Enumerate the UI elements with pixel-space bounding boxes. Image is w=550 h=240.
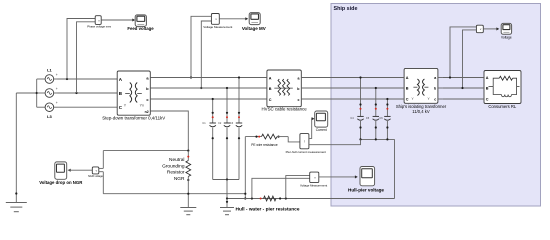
- svg-text:Voltage Measurement: Voltage Measurement: [203, 25, 232, 29]
- wire: phase b to MV measurement -: [201, 21, 211, 88]
- junction ship rail C5: [375, 138, 377, 140]
- svg-text:C1: C1: [202, 122, 206, 125]
- wire: NGR measurement - to loop: [99, 171, 104, 173]
- svg-text:B: B: [486, 87, 489, 91]
- junction NGR/rail: [187, 193, 189, 195]
- scope Current: [315, 111, 328, 127]
- label step-down transformer: [102, 115, 165, 120]
- junction PE/hull wire: [244, 197, 246, 199]
- junction ship b tap: [461, 87, 463, 89]
- capacitor C5 branch (ship phase b): [366, 87, 379, 139]
- label NGR voltage: [88, 174, 103, 178]
- NGR resistor R1: [186, 151, 191, 208]
- svg-text:C3: C3: [230, 122, 234, 125]
- junction ship a tap: [449, 76, 451, 78]
- label Voltage Measurement (hull): [300, 183, 327, 187]
- svg-text:Feed voltage: Feed voltage: [127, 26, 154, 31]
- wire: phase C source to transformer: [58, 106, 118, 108]
- arrow into Feed voltage scope: [132, 18, 135, 21]
- wire: phase a HVSC to T2: [301, 77, 404, 79]
- voltage measurement block (hull): [310, 172, 319, 183]
- wire: PE vertical (pier node): [244, 137, 246, 199]
- wire: PE to current measurement: [288, 137, 300, 142]
- label hull - water - pier resistance: [236, 207, 300, 213]
- capacitor C6 branch (ship phase c): [379, 98, 390, 139]
- svg-text:c: c: [298, 98, 300, 102]
- wire: phase c T1 to HVSC: [150, 98, 267, 100]
- voltage measurement block (MV): [211, 14, 219, 25]
- label Hull-pier voltage: [348, 188, 384, 193]
- svg-text:B: B: [269, 87, 272, 91]
- wire: ship measurement to scope: [483, 28, 497, 30]
- ground G3 (pier): [220, 199, 234, 215]
- wire: NGR left edge lower: [102, 172, 104, 194]
- AC voltage source L1: [37, 73, 58, 83]
- arrow into Current scope: [312, 117, 315, 120]
- wire: left bus to ground drop: [16, 93, 36, 203]
- label Consumers RL: [488, 104, 517, 109]
- wire: phase B source to transformer: [58, 92, 118, 94]
- wire: phase b HVSC to T2: [301, 87, 404, 89]
- capacitor C1 branch (phase c): [202, 98, 216, 180]
- scope Voltage drop on NGR: [55, 162, 67, 179]
- AC voltage source L3: [37, 101, 58, 111]
- wire: phase A tap to feed voltage measurement +: [67, 19, 95, 80]
- wire: ship a to voltage measurement +: [450, 27, 476, 78]
- label ship isolating transformer: [396, 104, 447, 114]
- scope Hull-pier voltage: [360, 167, 375, 186]
- ground G1 (feeder neutral): [6, 203, 27, 212]
- step-down transformer T1: [117, 71, 150, 115]
- label feed measurement: [87, 25, 111, 29]
- svg-text:+: +: [56, 73, 58, 77]
- svg-text:Phase voltage mes: Phase voltage mes: [87, 25, 111, 29]
- wire: hull measurement - input: [252, 178, 310, 198]
- wire: current signal to scope: [309, 119, 313, 139]
- wire: ship loop right edge down: [394, 139, 396, 198]
- svg-text:+: +: [56, 87, 58, 91]
- label Voltage MV: [242, 26, 266, 31]
- wire: phase a T1 to HVSC: [150, 77, 267, 79]
- pier-hull current measurement block: [300, 134, 309, 149]
- svg-text:A: A: [486, 76, 489, 80]
- hull - water - pier resistance R3: [251, 196, 287, 201]
- ground G2 (NGR): [180, 208, 196, 215]
- arrow into Voltage MV scope: [245, 17, 248, 20]
- junction phase A tap: [66, 78, 68, 80]
- wire: ship capacitor rail: [361, 138, 395, 140]
- wire: T2 b to consumers: [442, 87, 484, 89]
- svg-text:PE wire resistance: PE wire resistance: [251, 143, 278, 147]
- ship side region label: [334, 6, 358, 12]
- wire: NGR measurement + to loop: [99, 167, 104, 169]
- wire: current measurement to ship rail: [309, 139, 361, 144]
- wire: phase b T1 to HVSC: [150, 87, 267, 89]
- svg-text:Step-down transformer 0,4/11kV: Step-down transformer 0,4/11kV: [102, 115, 165, 120]
- svg-text:L3: L3: [47, 114, 52, 119]
- wire: feed measurement to scope: [101, 19, 133, 21]
- svg-text:HVSC cable resistance: HVSC cable resistance: [262, 107, 308, 112]
- HVSC cable resistance block: [263, 70, 306, 107]
- junction phase B tap: [75, 92, 77, 94]
- wire: NGR left edge upper: [102, 151, 104, 169]
- svg-text:NGR: NGR: [174, 176, 185, 182]
- svg-text:Voltage Measurement: Voltage Measurement: [300, 183, 327, 187]
- svg-text:Ship side: Ship side: [334, 6, 358, 12]
- wire: phase A source to transformer: [58, 78, 118, 80]
- label Neutral Grounding Resistor NGR: [162, 157, 185, 182]
- svg-text:Pier-hull current measurement: Pier-hull current measurement: [286, 150, 327, 154]
- wire: ship b to voltage measurement -: [463, 30, 477, 88]
- svg-text:Consumers RL: Consumers RL: [488, 104, 517, 109]
- capacitor C3 branch (phase a): [230, 76, 242, 179]
- arrow into NGR scope: [68, 169, 71, 172]
- capacitor C2 branch (phase b): [218, 87, 230, 180]
- wire: hull measurement to scope: [319, 176, 356, 178]
- wire: source bus vertical: [36, 79, 38, 107]
- svg-text:Grounding: Grounding: [162, 163, 185, 169]
- svg-text:Neutral: Neutral: [169, 157, 184, 163]
- svg-text:C2: C2: [218, 122, 222, 125]
- junction ship rail left: [359, 138, 361, 140]
- PE wire resistance R2: [245, 134, 288, 139]
- wire: NGR measurement to scope: [68, 169, 93, 171]
- junction on ground drop: [15, 192, 17, 194]
- wire: NGR bottom rail: [103, 193, 245, 195]
- junction bus/neutral: [36, 92, 38, 94]
- wire: phase a to MV measurement +: [191, 16, 211, 77]
- label PE wire resistance: [251, 143, 278, 147]
- svg-text:Voltage MV: Voltage MV: [242, 26, 266, 31]
- label L3: [47, 114, 52, 119]
- scope Voltage (ship): [501, 23, 511, 34]
- label HVSC cable resistance: [262, 107, 308, 112]
- svg-text:NGR voltage: NGR voltage: [88, 174, 103, 178]
- svg-text:C: C: [406, 98, 409, 102]
- wire: hull measurement + input: [286, 176, 310, 199]
- wire: shore capacitor common rail: [213, 179, 239, 181]
- AC voltage source L2: [37, 87, 58, 97]
- label pier-hull current measurement: [286, 150, 327, 154]
- junction hull/C2 ground: [226, 197, 228, 199]
- wire: C2 line down to hull-pier node: [226, 180, 228, 199]
- junction C2 rail: [226, 178, 228, 180]
- junction phase a / MV tap: [190, 76, 192, 78]
- svg-text:B: B: [406, 87, 409, 91]
- svg-text:A: A: [269, 77, 272, 81]
- wire: n2 to NGR: [150, 111, 188, 151]
- svg-text:A: A: [406, 76, 409, 80]
- arrow into Voltage scope: [496, 27, 499, 30]
- svg-text:C: C: [269, 98, 272, 102]
- svg-text:c: c: [434, 98, 436, 102]
- voltage measurement block (ship): [476, 25, 483, 33]
- junction phase b / MV tap: [200, 87, 202, 89]
- junction PE/NGR rail: [244, 193, 246, 195]
- label Feed voltage: [127, 26, 154, 31]
- voltage measurement block (NGR): [92, 167, 99, 174]
- wire: hull-pier bottom: [227, 198, 395, 200]
- capacitor C4 branch (ship phase a): [350, 76, 363, 139]
- scope Voltage MV: [249, 13, 260, 25]
- svg-text:Yn: Yn: [140, 103, 144, 107]
- svg-text:n2: n2: [145, 110, 149, 114]
- svg-text:Resistor: Resistor: [167, 170, 185, 176]
- wire: phase c HVSC to T2: [301, 98, 404, 100]
- svg-text:C: C: [486, 98, 489, 102]
- wire: T2 a to consumers: [442, 77, 484, 79]
- wire: MV measurement to scope: [219, 18, 246, 20]
- svg-text:Hull - water - pier resistance: Hull - water - pier resistance: [236, 207, 300, 213]
- junction n2/NGR top: [187, 150, 189, 152]
- svg-text:11/0,4 kV: 11/0,4 kV: [412, 109, 430, 114]
- wire: phase B tap to feed voltage measurement -: [77, 22, 96, 93]
- label Voltage Measurement: [203, 25, 232, 29]
- label Voltage drop on NGR: [39, 180, 83, 185]
- svg-text:Hull-pier voltage: Hull-pier voltage: [348, 188, 384, 193]
- label L1: [47, 68, 52, 73]
- junction ship rail C6: [386, 138, 388, 140]
- svg-text:Current: Current: [316, 128, 327, 132]
- svg-text:Voltage drop on NGR: Voltage drop on NGR: [39, 180, 83, 185]
- wire: NGR top edge: [103, 150, 188, 152]
- label Current: [316, 128, 327, 132]
- svg-text:L1: L1: [47, 68, 52, 73]
- voltage measurement block (feed): [95, 16, 101, 25]
- svg-text:Voltage: Voltage: [501, 36, 512, 40]
- svg-text:+: +: [56, 101, 58, 105]
- label Voltage: [501, 36, 512, 40]
- ship side region (blue background): [331, 4, 541, 207]
- consumers RL block: [480, 71, 521, 104]
- ship isolating transformer T2: [400, 68, 442, 103]
- wire: T2 c to consumers: [442, 98, 484, 100]
- arrow into Hull-pier voltage scope: [355, 175, 358, 178]
- scope Feed voltage: [135, 15, 146, 27]
